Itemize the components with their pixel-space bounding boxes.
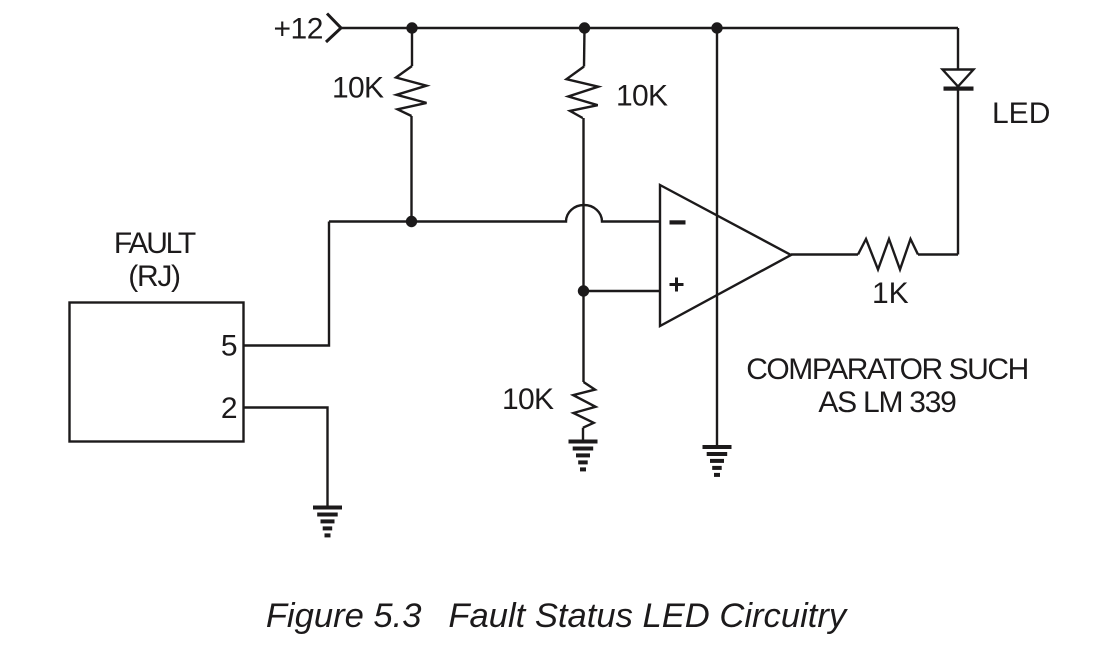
wire: non-inverting input lead: [584, 290, 661, 292]
wire: R4 to LED cathode riser: [918, 253, 958, 255]
node: rail junction at R1 top: [406, 22, 417, 33]
wire: reference net down to R3: [582, 291, 584, 382]
wire: R1 top lead: [411, 28, 413, 66]
wire: pin 2 lead to ground: [244, 408, 328, 506]
node: rail junction at op-amp supply: [711, 22, 722, 33]
wire: reference net vertical through hop down to plus junction: [582, 118, 584, 291]
connector J1 FAULT (RJ) box: [70, 303, 244, 442]
diode D1 LED triangle: [943, 70, 974, 87]
svg-text:10K: 10K: [332, 72, 384, 105]
wire: R3 bottom lead to ground: [582, 428, 584, 440]
svg-text:+12: +12: [274, 13, 323, 46]
node: junction at non-inverting input: [578, 285, 589, 296]
resistor R4 1K: [858, 239, 918, 270]
svg-text:FAULT: FAULT: [114, 227, 196, 260]
wire: R1 bottom lead down to inverting net: [410, 116, 412, 222]
ground: op-amp ground: [703, 445, 732, 477]
ground: reference divider ground: [569, 440, 598, 472]
svg-text:COMPARATOR SUCH: COMPARATOR SUCH: [746, 353, 1028, 386]
resistor R2 10K: [567, 67, 599, 119]
wire: op-amp output: [791, 253, 858, 255]
resistor R3 10K: [573, 382, 595, 428]
svg-text:10K: 10K: [502, 383, 554, 416]
node: rail junction at R2 top: [579, 22, 590, 33]
node: junction of R1 with inverting input net: [406, 216, 417, 227]
ground: pin 2 ground: [313, 506, 342, 538]
wire: +12 top rail: [341, 27, 958, 29]
wire: pin 5 lead to inverting net: [244, 222, 330, 346]
wire: op-amp supply/ground vertical: [716, 28, 718, 446]
svg-text:10K: 10K: [616, 80, 668, 113]
resistor R1 10K: [396, 66, 427, 116]
svg-text:1K: 1K: [872, 277, 909, 310]
wire: R2 top lead: [583, 28, 586, 67]
wire: LED cathode down to R4: [957, 91, 959, 255]
op-amp U1 minus sign: [670, 220, 686, 224]
svg-text:2: 2: [221, 392, 238, 425]
svg-text:LED: LED: [992, 97, 1050, 130]
svg-text:5: 5: [221, 330, 238, 363]
diode D1 LED cathode bar: [944, 87, 974, 91]
op-amp U1 comparator triangle: [660, 185, 791, 326]
svg-text:Figure 5.3 Fault Status LED C: Figure 5.3 Fault Status LED Circuitry: [266, 597, 849, 635]
wire: LED anode lead from rail: [957, 28, 959, 70]
+12 connector chevron: [326, 14, 341, 43]
svg-text:(RJ): (RJ): [128, 260, 180, 293]
wire: inverting input net with hop over reference net: [329, 205, 660, 221]
op-amp U1 plus sign: [670, 278, 684, 292]
svg-text:AS LM 339: AS LM 339: [818, 386, 956, 419]
